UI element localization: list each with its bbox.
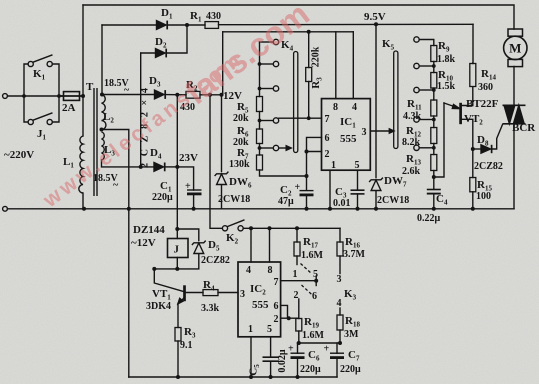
wire R4 to IC2 pin3	[218, 292, 238, 294]
svg-text:2: 2	[294, 290, 299, 301]
svg-text:2: 2	[274, 314, 279, 325]
zener diode DW6	[215, 172, 229, 185]
wire C6 bottom lead	[297, 358, 299, 377]
wire L3 bottom to D4 anode	[102, 160, 155, 167]
wire DW6 lower lead	[221, 186, 223, 209]
svg-text:DZ144: DZ144	[133, 224, 165, 236]
svg-text:220μ: 220μ	[340, 364, 361, 375]
svg-text:8: 8	[333, 102, 338, 113]
switch K1	[28, 55, 52, 67]
resistor R16	[337, 242, 343, 256]
transformer primary L1	[79, 136, 83, 193]
wire C4 upper lead	[433, 177, 435, 189]
switch K4 contact 1	[273, 39, 278, 44]
fuse 2A	[61, 92, 82, 101]
svg-text:8.2k: 8.2k	[402, 137, 421, 148]
wire K4 bus contact 2	[260, 63, 274, 65]
wire K1 to fuse node	[52, 64, 59, 95]
svg-text:555: 555	[252, 299, 269, 311]
wire IC1 pin5 to C3	[357, 170, 359, 190]
wire K5 contact3 link	[419, 89, 434, 91]
wire DW6 upper lead	[221, 95, 223, 172]
diode D3	[155, 90, 166, 99]
svg-text:7: 7	[274, 277, 279, 288]
svg-text:1.8k: 1.8k	[437, 54, 456, 65]
svg-text:47μ: 47μ	[278, 196, 294, 207]
wire R3 bottom to lower rail	[177, 341, 179, 377]
capacitor C2	[300, 191, 314, 195]
transformer T core	[94, 88, 97, 196]
wire K4 bus top contact	[260, 41, 274, 43]
wire IC1 pin4 riser	[352, 32, 354, 99]
wire center tap down to lower ground rail	[102, 130, 129, 378]
wire IC2 pin8 riser	[269, 228, 271, 262]
wire VT1 collector lead	[154, 269, 183, 292]
wire D1 cathode to R1	[168, 24, 206, 26]
triac BCR	[503, 105, 526, 124]
svg-text:4: 4	[246, 265, 251, 276]
wire J1 branch	[24, 96, 28, 122]
wire J1 to fuse node	[52, 97, 59, 122]
node mains input terminal top	[3, 94, 8, 99]
svg-text:BT22F: BT22F	[466, 98, 499, 110]
zener diode DW7	[369, 178, 383, 191]
svg-text:430: 430	[206, 11, 221, 22]
svg-text:1: 1	[293, 269, 298, 280]
wire IC1 pin1 to ground	[329, 170, 331, 209]
transistor VT1	[178, 285, 185, 304]
transformer secondary L3	[102, 132, 105, 160]
svg-text:M: M	[509, 41, 521, 56]
wire K5 contact5 link	[419, 147, 434, 149]
svg-text:130k: 130k	[229, 159, 250, 170]
capacitor C3	[351, 190, 365, 194]
svg-text:8: 8	[268, 265, 273, 276]
relay contact J1	[28, 113, 52, 125]
IC U2 555 timer IC2	[238, 262, 281, 337]
svg-text:4.3k: 4.3k	[403, 111, 422, 122]
wire R19 bottom lead	[298, 331, 300, 343]
switch K5 contact 3	[414, 87, 419, 92]
motor M	[504, 29, 527, 67]
switch K2	[222, 220, 244, 231]
IC U1 555 timer IC1	[322, 99, 371, 171]
wire D4 cathode to 23V node	[165, 166, 177, 168]
svg-text:1: 1	[331, 160, 336, 171]
wire R3a bottom lead	[308, 82, 310, 119]
wire 220V riser to top rail	[82, 5, 84, 96]
svg-text:555: 555	[340, 133, 357, 145]
diode D1	[157, 21, 168, 30]
wire mains input top lead	[8, 95, 63, 97]
wire BCR lower lead to rail	[513, 124, 515, 209]
resistor R13	[431, 155, 437, 171]
wire C3 lower lead	[357, 194, 359, 209]
svg-text:7: 7	[325, 114, 330, 125]
wire 23V node to C1	[177, 167, 193, 190]
switch K5 wiper bar	[389, 51, 398, 149]
node junction dots	[22, 94, 26, 98]
wire K3 contact4 to R18	[339, 308, 341, 315]
svg-text:1.6M: 1.6M	[301, 250, 324, 261]
svg-text:0.22μ: 0.22μ	[417, 213, 441, 224]
wire D1 anode line	[102, 24, 157, 26]
wire IC1 pin2 link	[307, 151, 322, 153]
wire bottom common rail	[8, 208, 515, 210]
svg-text:9.1: 9.1	[180, 340, 193, 351]
svg-text:4: 4	[337, 298, 342, 309]
wire VT2 emitter down	[462, 119, 473, 149]
switch K5 contact 2	[414, 63, 419, 68]
wire R18 bottom lead	[339, 330, 341, 343]
wire emitter node to D8	[473, 148, 481, 150]
svg-text:3.3k: 3.3k	[201, 303, 220, 314]
wire C1 lower lead	[193, 195, 195, 209]
resistor R11	[431, 100, 437, 116]
wire 9.5V rail from R1	[219, 23, 474, 25]
node mains input terminal bottom	[3, 206, 8, 211]
wire IC1 pin6 link	[307, 137, 322, 151]
svg-text:~: ~	[124, 85, 130, 96]
wire timing node to C2	[306, 152, 308, 191]
wire VT1 base to R4	[185, 292, 203, 294]
wire R15 bottom lead	[472, 192, 474, 209]
wire 9.5V down to R14	[472, 24, 474, 63]
wire relay bottom parallel link	[154, 255, 199, 269]
svg-text:9.5V: 9.5V	[364, 11, 386, 23]
wire IC1 pin3 to K5 wiper	[370, 130, 393, 132]
wire K1 branch	[24, 64, 28, 96]
svg-text:~: ~	[113, 180, 119, 191]
wire K4 bus contact 3	[260, 88, 274, 90]
svg-text:3: 3	[362, 127, 367, 138]
wire D2 anode riser	[140, 53, 142, 167]
wire IC2 pin1 to lower rail	[250, 337, 252, 377]
resistor R2	[186, 91, 200, 98]
svg-text:+: +	[324, 344, 330, 355]
wire IC2 pin2 to R19	[281, 317, 299, 319]
wire primary top lead	[82, 96, 84, 136]
resistor R1	[205, 22, 219, 29]
switch K4 contact 4	[273, 118, 278, 123]
wire VT1 emitter lead	[177, 304, 179, 328]
wire R14 top lead	[472, 62, 474, 65]
resistor R5	[257, 97, 263, 112]
svg-text:4: 4	[352, 102, 357, 113]
wire DW7 lower lead	[375, 192, 377, 209]
wire K5 contact2 link	[419, 65, 434, 67]
svg-text:2A: 2A	[62, 102, 76, 114]
svg-text:2: 2	[325, 149, 330, 160]
svg-text:100: 100	[476, 191, 491, 202]
resistor R19	[296, 319, 302, 332]
svg-text:220μ: 220μ	[152, 192, 173, 203]
switch K5 contact 5	[414, 145, 419, 150]
resistor R3 220k	[306, 68, 312, 82]
wire J coil bottom lead	[176, 258, 178, 269]
wire L2 top to D3 anode	[102, 94, 155, 96]
wire K2 to IC2 supply line	[243, 227, 340, 229]
resistor R15	[470, 178, 476, 192]
resistor R12	[431, 128, 437, 144]
resistor R10	[431, 73, 437, 89]
wire R17 bottom contact lead	[296, 256, 298, 265]
resistor R6	[257, 129, 263, 144]
node K4 bus top corner	[259, 42, 261, 97]
resistor R14	[470, 64, 476, 87]
zener diode D5	[192, 241, 206, 254]
resistor R7	[257, 155, 263, 170]
svg-text:20k: 20k	[233, 113, 249, 124]
switch K4 contact 2	[273, 61, 278, 66]
switch K5 contact 1	[414, 37, 419, 42]
relay coil J box	[168, 239, 189, 258]
wire C2 lower lead	[306, 196, 308, 209]
resistor R4	[203, 290, 218, 296]
wire L2 top riser to D1 line	[101, 25, 103, 95]
wire contact4 to IC1 pin7	[279, 117, 322, 119]
wire R10-R11 link	[433, 88, 435, 100]
wire fuse output to primary junction	[59, 95, 83, 97]
wire lower ground rail	[129, 376, 337, 378]
wire IC2 pin7 to K3 wiper node	[281, 280, 317, 282]
wire top mains rail to motor	[83, 5, 514, 29]
svg-text:2CW18: 2CW18	[218, 194, 250, 205]
wire K3 contact2 stub to R19 top	[298, 299, 300, 319]
wire relay top parallel link	[177, 229, 199, 241]
svg-text:3DK4: 3DK4	[146, 301, 171, 312]
transistor VT2	[452, 103, 460, 124]
svg-text:BCR: BCR	[512, 122, 536, 134]
diode D2	[156, 49, 167, 58]
capacitor C6	[291, 353, 305, 357]
wire 12V riser	[222, 32, 224, 95]
svg-text:6: 6	[312, 291, 317, 302]
wire timing caps node	[298, 342, 341, 344]
switch K5 contact 4	[414, 117, 419, 122]
wire R5-R6 link	[259, 112, 261, 130]
wire R17 top lead	[296, 228, 298, 242]
wire 23V drop to relay branch	[176, 167, 178, 239]
svg-text:23V: 23V	[179, 152, 198, 164]
wire D2 cathode up to D1 node	[167, 25, 188, 53]
diode D4	[154, 163, 165, 172]
wire K5 contact1 to R9	[419, 40, 434, 46]
svg-text:~12V: ~12V	[131, 237, 156, 249]
svg-text:5: 5	[267, 324, 272, 335]
wire primary bottom lead	[82, 193, 84, 209]
svg-text:3M: 3M	[344, 329, 359, 340]
wire motor lower lead to BCR	[513, 67, 515, 106]
wire C6 top lead	[297, 343, 299, 353]
wire K4 bus contact 4	[260, 120, 274, 122]
wire D8 cathode to gate	[493, 125, 503, 150]
svg-text:3: 3	[337, 274, 342, 285]
wire supply line down to R16	[339, 228, 341, 242]
wire IC2 pin5 to C5	[270, 337, 272, 357]
svg-text:1: 1	[248, 324, 253, 335]
svg-text:1.6M: 1.6M	[302, 330, 325, 341]
svg-text:2CZ82: 2CZ82	[474, 161, 503, 172]
svg-text:5: 5	[313, 269, 318, 280]
switch K4 wiper bar	[286, 52, 298, 153]
wire 12V supply line to IC1	[223, 31, 354, 33]
resistor R17	[294, 242, 300, 256]
svg-text:220k: 220k	[311, 46, 322, 67]
wire K4 wiper arm	[279, 147, 291, 149]
wire 23V riser	[176, 95, 178, 167]
wire VT2 collector to R14	[462, 87, 473, 106]
svg-text:6: 6	[274, 301, 279, 312]
svg-text:J: J	[174, 244, 180, 256]
switch K3 throw 1-5	[301, 264, 312, 274]
wire D3 cathode to R2	[166, 94, 187, 96]
capacitor C1	[187, 190, 202, 194]
resistor R18	[337, 315, 343, 330]
wire C5 bottom lead	[270, 361, 272, 377]
switch K4 contact 3	[273, 86, 278, 91]
svg-text:2.6k: 2.6k	[402, 166, 421, 177]
resistor R3 9.1	[175, 328, 181, 342]
wire R6-R7 link	[259, 144, 261, 156]
svg-text:+: +	[295, 182, 301, 193]
svg-text:0.01: 0.01	[333, 198, 351, 209]
svg-text:2CW18: 2CW18	[377, 195, 409, 206]
svg-text:220μ: 220μ	[300, 364, 321, 375]
wire IC2 pin4 riser	[250, 228, 252, 262]
svg-text:1.5k: 1.5k	[437, 81, 456, 92]
wire R9-R10 link	[433, 62, 435, 73]
wire R15 top lead	[472, 149, 474, 178]
svg-text:6: 6	[325, 133, 330, 144]
wire VT2 base diagonal	[444, 103, 459, 108]
wire K5 contact4 link	[419, 119, 434, 121]
wire R3a top lead	[308, 32, 310, 68]
wire C4 node to VT2 base riser	[434, 103, 444, 177]
svg-text:+: +	[288, 344, 294, 355]
capacitor C5	[263, 357, 280, 361]
transformer secondary L2	[102, 95, 106, 130]
switch K4 contact 5	[273, 145, 278, 150]
wire R7 bottom to timing node	[260, 170, 307, 176]
svg-text:3.7M: 3.7M	[343, 249, 366, 260]
resistor R9	[431, 46, 437, 62]
capacitor C4	[427, 190, 441, 194]
wire IC2 pin6 link	[281, 305, 288, 318]
svg-text:0.02μ: 0.02μ	[277, 349, 288, 373]
wire C7 bottom lead	[336, 358, 338, 377]
wire K4 bus contact 5	[260, 147, 274, 149]
wire R2 to 12V node	[200, 94, 223, 96]
wire R13 bottom to C4 node	[433, 171, 435, 178]
wire R16 contact3 lead	[339, 256, 341, 274]
diode D8	[481, 145, 492, 153]
wire 9.5V to DW7 riser	[375, 24, 377, 177]
svg-text:5: 5	[355, 160, 360, 171]
wire K3 wiper stub	[315, 276, 317, 286]
wire C7 top lead	[336, 343, 338, 353]
svg-text:~220V: ~220V	[4, 149, 34, 161]
svg-text:3: 3	[240, 289, 245, 300]
wire D2 anode lead	[141, 52, 156, 54]
wire IC1 pin8 riser	[335, 32, 337, 99]
svg-text:360: 360	[478, 82, 493, 93]
capacitor C7	[330, 353, 344, 357]
wire C4 lower lead	[433, 194, 435, 209]
switch K3 throw 2-6	[302, 285, 313, 296]
svg-text:+: +	[185, 181, 191, 192]
svg-text:T: T	[86, 81, 94, 93]
wire R12-R13 link	[433, 144, 435, 155]
wire R11-R12 link	[433, 116, 435, 128]
wire 12V feed down to K2	[210, 95, 222, 229]
svg-text:2CZ82: 2CZ82	[201, 255, 230, 266]
